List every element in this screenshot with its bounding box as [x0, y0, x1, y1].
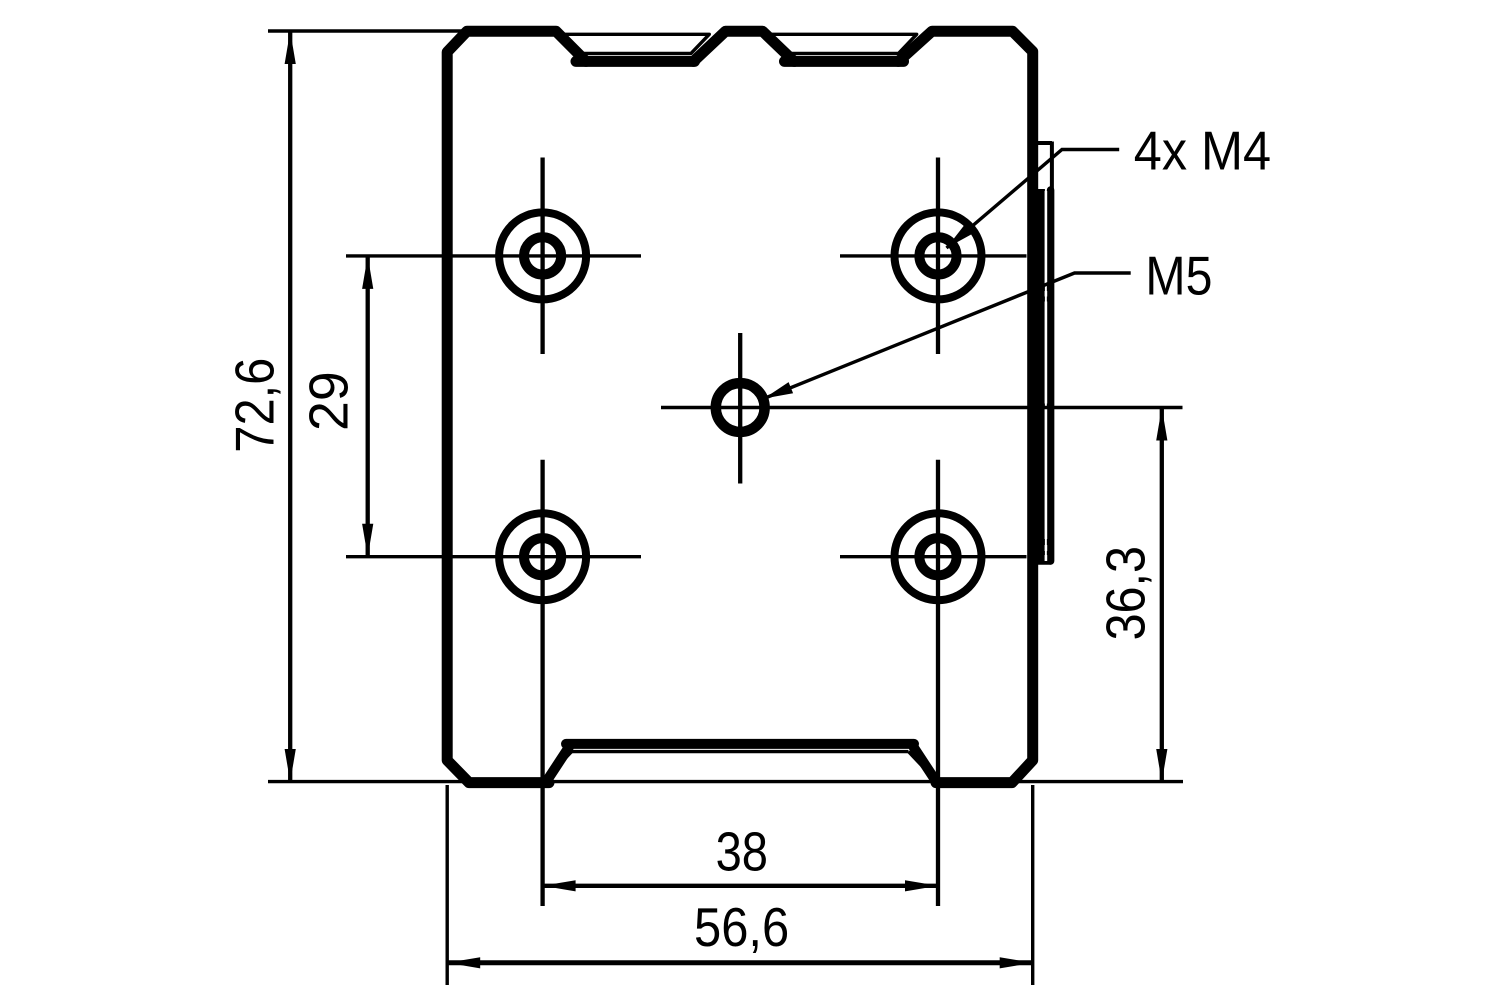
- centerline horizontal lower holes row + extension to 29 dim: [346, 555, 641, 558]
- top right notch inner edge (thin): [767, 34, 916, 53]
- dim 38 line: [543, 884, 938, 888]
- dim 72,6 extension line top: [268, 29, 466, 32]
- centerline vertical lower-left hole + extension to 38 dim: [540, 460, 544, 906]
- centerline vertical upper-left hole: [540, 158, 544, 355]
- svg-text:38: 38: [716, 821, 768, 882]
- svg-text:36,3: 36,3: [1096, 546, 1157, 640]
- plate outline right part (notch 2 to top-right corner, right edge, bottom-right): [899, 31, 1033, 782]
- leader line 4x M4: [947, 150, 1120, 249]
- side flange top nub: [1035, 141, 1052, 145]
- hole lower-right: M4 thread ring: [919, 538, 956, 575]
- top notch 2 floor (thick): [785, 56, 904, 67]
- side flange right edge lower thick part: [1047, 190, 1055, 561]
- bottom recess left chamfer (thick): [547, 747, 570, 781]
- side flange right edge upper thin part: [1050, 142, 1054, 191]
- centerline horizontal lower-right hole: [840, 555, 1027, 558]
- svg-text:M5: M5: [1145, 245, 1212, 306]
- dim 56,6 extension line right: [1031, 785, 1034, 985]
- dim 56,6 extension line left: [446, 785, 449, 985]
- leader line M5: [764, 273, 1131, 399]
- centerline vertical lower-right hole + extension to 38 dim: [936, 460, 940, 906]
- counterbored hole lower-left: outer circle: [499, 513, 586, 600]
- bottom recess right chamfer (thick): [914, 747, 937, 781]
- dim 72,6 line: [288, 31, 292, 782]
- centerline horizontal upper holes row + extension to 29 dim: [346, 254, 641, 257]
- counterbored hole upper-right: outer circle: [895, 212, 982, 299]
- dim 36,3 line: [1160, 408, 1164, 783]
- centerline vertical M5 hole: [738, 333, 742, 484]
- top notch 1 floor (thick): [576, 56, 695, 67]
- centerline horizontal upper-right hole: [840, 254, 1027, 257]
- bottom recess inner left chamfer (thin): [547, 752, 572, 778]
- centerline vertical upper-right hole: [936, 158, 940, 355]
- counterbored hole lower-right: outer circle: [895, 513, 982, 600]
- dim 29 line: [366, 256, 370, 557]
- bottom recess inner floor (thin): [572, 750, 909, 753]
- plate outline left part (bottom-left, left edge, top edge to notch 1): [447, 31, 586, 782]
- bottom edge thin line across recess + extension line for dims 72,6 / 36,3: [268, 780, 1183, 783]
- svg-text:4x M4: 4x M4: [1134, 121, 1271, 182]
- svg-text:56,6: 56,6: [694, 897, 789, 958]
- hole upper-right: M4 thread ring: [919, 237, 956, 274]
- hole lower-left: M4 thread ring: [524, 538, 561, 575]
- dim 56,6 line: [447, 960, 1032, 965]
- svg-text:72,6: 72,6: [224, 358, 285, 453]
- plate outline middle tab between notches: [694, 31, 795, 61]
- bottom recess thick floor: [566, 739, 914, 749]
- hole upper-left: M4 thread ring: [524, 237, 561, 274]
- svg-text:29: 29: [299, 371, 360, 431]
- side flange hidden center line (white dash-dot slit): [1045, 191, 1048, 561]
- central hole M5 thread ring: [716, 383, 765, 432]
- bottom recess inner right chamfer (thin): [909, 752, 934, 778]
- top left notch inner edge (thin): [559, 34, 710, 53]
- centerline horizontal M5 hole + extension line for 36,3 dim: [661, 406, 1183, 409]
- side flange bottom edge: [1037, 559, 1050, 565]
- side flange inner bar (thick silhouette): [1036, 189, 1045, 562]
- counterbored hole upper-left: outer circle: [499, 212, 586, 299]
